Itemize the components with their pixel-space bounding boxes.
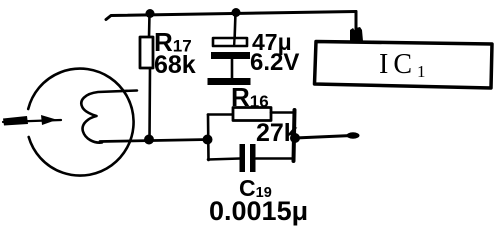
node junction top rail / C47u [232, 8, 241, 17]
output wire end blob [347, 132, 360, 138]
wire output [295, 136, 352, 139]
wire loop left side [207, 115, 210, 161]
wire C47u bottom lead [231, 59, 234, 78]
svg-text:6.2V: 6.2V [250, 49, 299, 76]
wire loop top branch right [271, 111, 295, 114]
arrow sound input shaft [3, 120, 61, 122]
wire tick through positive plate [233, 38, 236, 45]
node left of R16/C19 loop [203, 135, 213, 145]
node junction top rail / R17 [146, 9, 155, 18]
microphone element [81, 91, 137, 143]
wire loop top branch left [208, 113, 233, 116]
wire R17 top lead [148, 14, 151, 38]
svg-text:27k: 27k [256, 119, 298, 147]
resistor R16 [233, 108, 271, 121]
wire loop right side [294, 110, 295, 161]
arrow head [41, 115, 57, 125]
wire loop bottom branch right [256, 157, 294, 160]
wire top supply rail [106, 12, 356, 20]
capacitor C19 right plate [250, 144, 256, 172]
svg-text:68k: 68k [154, 51, 196, 79]
node junction R17 / signal wire [144, 135, 154, 145]
capacitor 47u negative plate (solid) [211, 52, 250, 59]
wire loop bottom branch left [208, 159, 240, 160]
wire signal mic to left node [100, 140, 208, 142]
terminal bar below 47u [208, 78, 251, 85]
IC1 box [315, 42, 493, 89]
node right of R16/C19 loop [290, 133, 300, 143]
wire C47u top lead [235, 13, 236, 43]
capacitor C19 left plate [240, 144, 246, 172]
arrow thick tail [3, 116, 28, 126]
wire R17 bottom lead [148, 68, 151, 140]
pin blob above IC1 [350, 27, 363, 41]
svg-text:0.0015μ: 0.0015μ [209, 196, 308, 226]
microphone body circle [28, 69, 133, 176]
resistor R17 [140, 37, 153, 68]
wire drop into IC1 [355, 12, 358, 41]
capacitor 47u positive plate (hollow) [213, 38, 247, 46]
